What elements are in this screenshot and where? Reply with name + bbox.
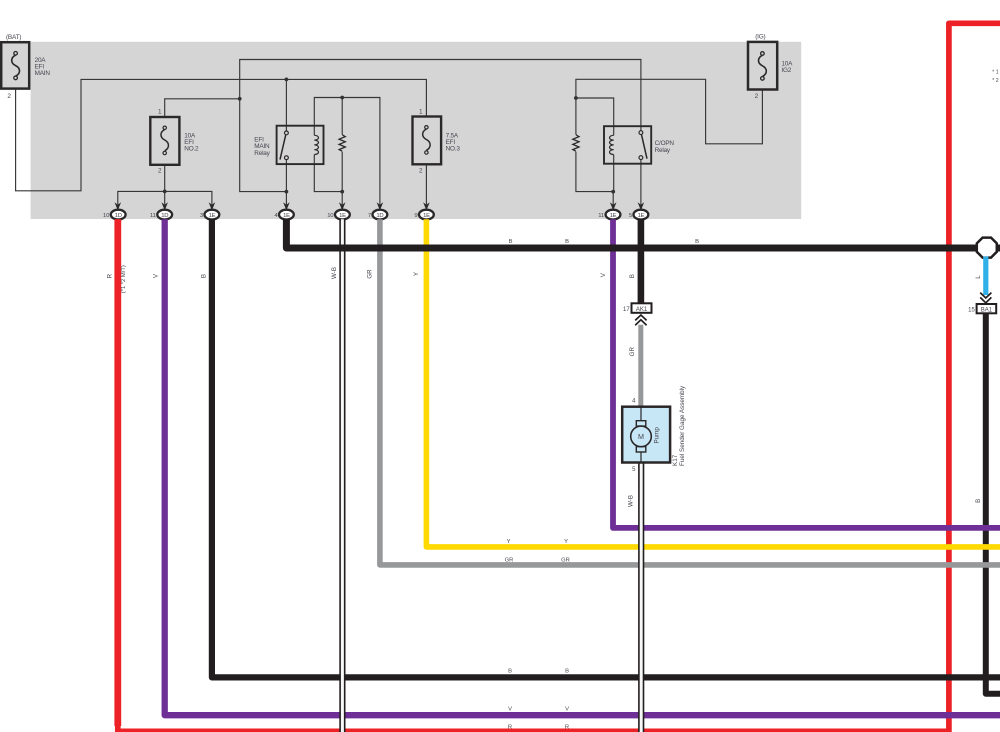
svg-text:B: B <box>629 274 636 278</box>
svg-text:15: 15 <box>968 307 975 313</box>
svg-text:11: 11 <box>598 213 604 219</box>
svg-text:1E: 1E <box>339 213 346 219</box>
svg-text:GR: GR <box>629 347 636 357</box>
svg-text:2: 2 <box>7 93 11 100</box>
svg-text:B: B <box>565 239 569 245</box>
svg-text:C/OPN: C/OPN <box>655 140 675 147</box>
wire L cyan from splice to BA1 <box>983 257 988 296</box>
connector BA1 <box>977 304 997 313</box>
svg-text:B: B <box>509 239 513 245</box>
wire fuse EFI NO.2 pin 2 to connectors 1D/1E <box>118 165 212 205</box>
wire Y from 9 (1E) to right <box>426 219 1000 547</box>
svg-text:11: 11 <box>150 213 156 219</box>
note text right edge <box>992 70 998 85</box>
svg-text:(IG): (IG) <box>755 33 765 40</box>
junction dots <box>163 78 615 194</box>
svg-text:R: R <box>565 725 569 731</box>
svg-text:R: R <box>107 273 114 278</box>
svg-text:Pump: Pump <box>653 427 660 444</box>
wire EFI MAIN relay switch pins <box>285 79 287 204</box>
bus and bottom wire labels <box>505 239 699 731</box>
wire V from 11 (1D) to bottom right <box>165 219 1000 715</box>
connector 10 (1D) <box>111 210 126 220</box>
arrow to 10 (1D) <box>115 202 122 210</box>
svg-text:GR: GR <box>561 558 570 564</box>
resistor in EFI MAIN relay circuit <box>339 134 345 151</box>
svg-text:17: 17 <box>623 307 630 313</box>
relay C/OPN <box>604 126 651 164</box>
fuse 20A EFI MAIN (BAT) <box>1 42 29 88</box>
connector AK1/BA1 labels <box>623 307 993 473</box>
chevron into BA1 <box>980 293 991 303</box>
arrow to 11 (1E) <box>610 202 617 210</box>
svg-text:B: B <box>200 274 207 278</box>
wire fuse EFI NO.3 pin 2 to 9 (1E) <box>425 154 427 205</box>
wire fuse IG2 pin 2 to C/OPN relay coil <box>576 79 763 204</box>
wire GR from 7 (1D) to right <box>380 219 1000 565</box>
svg-text:Y: Y <box>507 539 511 545</box>
svg-text:W-B: W-B <box>331 267 338 279</box>
svg-text:9: 9 <box>414 213 417 219</box>
svg-text:NO.2: NO.2 <box>184 145 199 152</box>
svg-text:Relay: Relay <box>655 147 671 154</box>
connector pin numbers <box>103 213 633 219</box>
wire W-B from 10 (1E) to bottom <box>339 219 345 732</box>
svg-text:10: 10 <box>103 213 110 219</box>
svg-text:V: V <box>565 707 569 713</box>
svg-text:(BAT): (BAT) <box>6 34 21 41</box>
arrow to 4 (1E) <box>283 202 290 210</box>
svg-text:M: M <box>638 432 644 441</box>
svg-text:B: B <box>975 499 982 503</box>
svg-text:1D: 1D <box>376 213 383 219</box>
connector ovals 1D/1E row <box>111 210 649 220</box>
wire B from BA1 connector down to bottom right <box>986 313 1000 694</box>
svg-text:(*1 *2 M/T): (*1 *2 M/T) <box>121 265 127 293</box>
junction EFI NO.2 feed <box>238 97 242 101</box>
connector 7 (1D) <box>373 210 388 220</box>
junction C/OPN coil feed <box>574 96 578 100</box>
svg-text:1E: 1E <box>283 213 290 219</box>
svg-text:W-B: W-B <box>628 495 635 507</box>
wire from (BAT) fuse pin 2 to EFI MAIN relay switch and EFI NO.3 fuse <box>16 79 427 190</box>
svg-text:Relay: Relay <box>254 150 270 157</box>
fuse 10A IG2 (IG) <box>748 42 777 90</box>
svg-text:1D: 1D <box>115 213 122 219</box>
svg-text:B: B <box>508 669 512 675</box>
svg-text:R: R <box>508 725 512 731</box>
svg-text:7: 7 <box>368 213 371 219</box>
svg-text:V: V <box>600 272 607 277</box>
svg-text:1E: 1E <box>209 213 216 219</box>
svg-text:1D: 1D <box>161 213 168 219</box>
wire color labels rotated <box>107 265 982 507</box>
svg-text:MAIN: MAIN <box>35 70 51 77</box>
svg-text:AK1: AK1 <box>636 307 648 313</box>
ground splice octagon <box>977 238 997 258</box>
connector 3 (1E) <box>205 210 220 220</box>
wire V from 11 (1E) to right <box>613 219 1000 528</box>
wire B from 5 (1E) to AK1 connector <box>638 219 645 303</box>
connector arrows <box>115 202 645 210</box>
connector 10 (1E) <box>335 210 350 220</box>
chevron out of AK1 <box>635 315 646 325</box>
wire EFI MAIN relay coil circuit to 7 (1D) <box>314 98 380 205</box>
arrow to 9 (1E) <box>423 202 430 210</box>
fuse 10A EFI NO.2 <box>150 117 179 165</box>
connector oval codes <box>115 213 645 219</box>
connector 9 (1E) <box>419 210 434 220</box>
svg-text:* 1: * 1 <box>992 70 998 76</box>
svg-text:GR: GR <box>505 558 514 564</box>
svg-text:B: B <box>695 239 699 245</box>
junction EFI MAIN relay switch tap <box>285 78 289 82</box>
svg-text:Y: Y <box>413 272 420 276</box>
svg-text:V: V <box>153 273 160 278</box>
svg-text:1E: 1E <box>610 213 617 219</box>
svg-text:Fuel Sender Gage Assembly: Fuel Sender Gage Assembly <box>679 385 686 466</box>
svg-text:NO.3: NO.3 <box>446 145 461 152</box>
svg-text:GR: GR <box>366 269 373 279</box>
connector 5 (1E) <box>634 210 649 220</box>
wire B thick from 4 (1E) along ground bus to right <box>286 219 1000 248</box>
arrow to 7 (1D) <box>377 202 384 210</box>
svg-text:5: 5 <box>632 467 636 473</box>
svg-text:B: B <box>565 669 569 675</box>
junction 4 (1E) tap <box>285 190 289 194</box>
wire GR from AK1 to fuel pump <box>638 325 643 407</box>
junction 10 (1E) tap <box>340 190 344 194</box>
relay/fuse panel background <box>31 42 802 219</box>
svg-text:L: L <box>975 275 982 279</box>
svg-text:4: 4 <box>632 398 636 404</box>
svg-text:* 2: * 2 <box>992 78 998 84</box>
motor brushes <box>636 421 646 426</box>
fuse 7.5A EFI NO.3 <box>413 117 442 165</box>
arrow to 3 (1E) <box>209 202 216 210</box>
svg-text:10: 10 <box>327 213 334 219</box>
pump motor M <box>631 426 652 447</box>
connector 4 (1E) <box>279 210 294 220</box>
connector AK1 <box>632 303 652 313</box>
junction EFI MAIN relay resistor top <box>340 96 344 100</box>
junction 11 (1E) tap <box>611 190 615 194</box>
svg-text:1E: 1E <box>638 213 645 219</box>
wire C/OPN relay switch pin to 5 (1E) <box>640 160 642 205</box>
text labels <box>6 33 793 174</box>
wire EFI MAIN relay output bus to C/OPN relay switch <box>240 60 641 192</box>
wire B from 3 (1E) to bottom right <box>212 219 1000 677</box>
arrow to 5 (1E) <box>638 202 645 210</box>
svg-text:BA1: BA1 <box>981 307 993 313</box>
svg-text:1E: 1E <box>423 213 430 219</box>
junction 11 (1D) tap <box>163 190 167 194</box>
fuel pump K17 assembly box <box>622 407 670 463</box>
svg-text:Y: Y <box>564 539 568 545</box>
svg-text:IG2: IG2 <box>781 67 791 74</box>
connector 11 (1E) <box>606 210 621 220</box>
arrow to 10 (1E) <box>339 202 346 210</box>
svg-text:V: V <box>508 707 512 713</box>
svg-text:K17: K17 <box>672 454 679 466</box>
wire W-B from fuel pump to bottom <box>638 463 644 732</box>
wire fuse EFI NO.2 pin 1 <box>165 99 240 126</box>
connector 11 (1D) <box>157 210 172 220</box>
arrow to 11 (1D) <box>161 202 168 210</box>
resistor in C/OPN relay circuit <box>573 134 579 151</box>
relay EFI MAIN <box>277 126 324 164</box>
